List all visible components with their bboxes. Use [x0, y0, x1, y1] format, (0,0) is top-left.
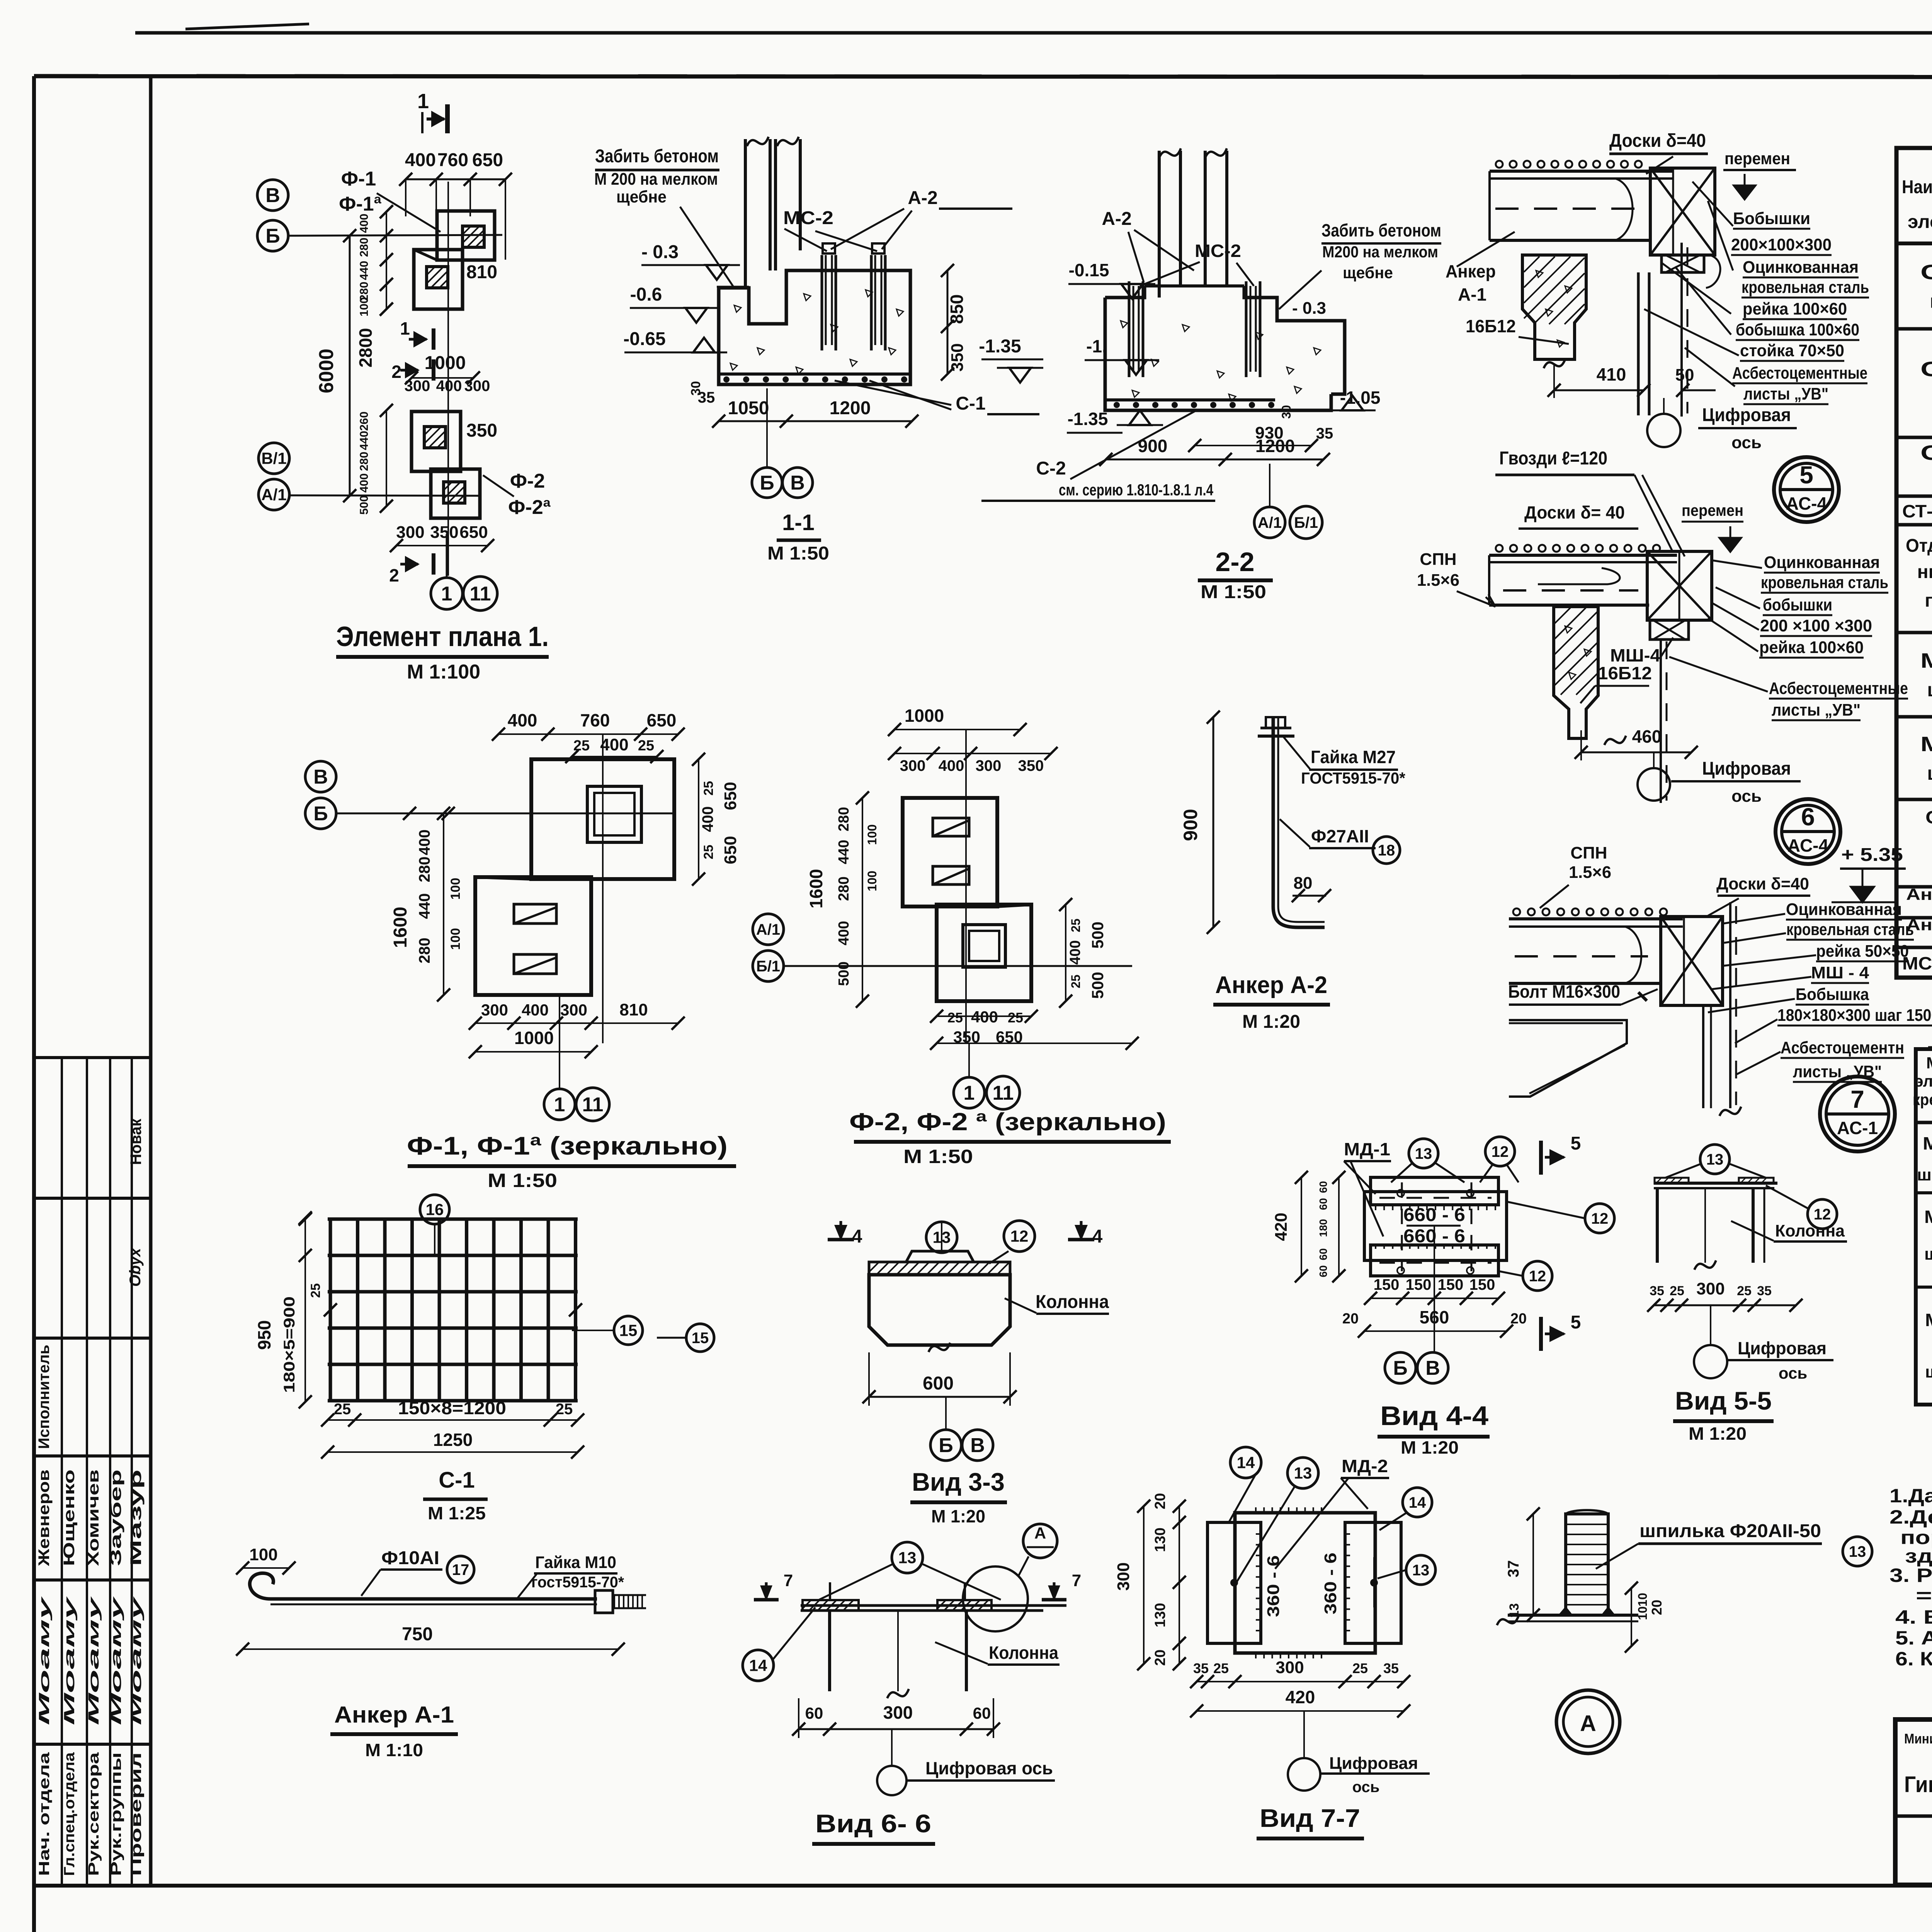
svg-text:Моаму: Моаму [108, 1596, 124, 1725]
sec2-2 axis circles [1254, 507, 1285, 538]
mesh left dims [304, 1218, 306, 1402]
ankerA2 dim 900 [1213, 717, 1214, 927]
vid66 bolts on plate [829, 1582, 831, 1600]
svg-text:6. Крепежные элементы изгота: 6. Крепежные элементы изготавливать изст… [1895, 1648, 1932, 1670]
svg-text:шт.24: шт.24 [1930, 291, 1932, 312]
svg-text:Асбестоцементные: Асбестоцементные [1732, 364, 1867, 383]
vid66 цифровая ось [877, 1766, 906, 1795]
svg-text:180×5=900: 180×5=900 [281, 1296, 298, 1393]
vid77 central rect [1235, 1513, 1375, 1653]
svg-text:щебне: щебне [616, 187, 667, 206]
svg-text:М 1:20: М 1:20 [1689, 1423, 1747, 1444]
svg-text:крепления: крепления [1913, 1090, 1932, 1109]
frame top border [34, 76, 1932, 77]
svg-text:рейка 100×60: рейка 100×60 [1759, 638, 1864, 657]
svg-text:5: 5 [1571, 1133, 1581, 1154]
f1 lower rect [475, 877, 591, 995]
svg-text:25: 25 [1352, 1660, 1368, 1676]
svg-text:25: 25 [701, 845, 716, 859]
svg-text:400: 400 [699, 806, 716, 832]
svg-text:ГОСТ5915-70*: ГОСТ5915-70* [1301, 769, 1406, 787]
stud thread cylinder [1566, 1514, 1608, 1615]
vid55 column [1656, 1188, 1659, 1263]
plan bottom section flag 2 [432, 553, 435, 575]
svg-text:МС-2: МС-2 [783, 208, 833, 228]
svg-text:20: 20 [1152, 1493, 1168, 1509]
svg-text:М 1:50: М 1:50 [1201, 582, 1266, 602]
svg-text:МД-1: МД-1 [1920, 649, 1932, 672]
vid66 circle A [1023, 1524, 1057, 1558]
node6 circle 6/AC-4 [1776, 799, 1840, 864]
sec1-1 foundation outline [719, 270, 910, 384]
sec2-2 speckles [1121, 321, 1128, 328]
svg-text:650: 650 [721, 836, 740, 864]
svg-text:35: 35 [698, 389, 715, 406]
svg-text:СТ-1: СТ-1 [1920, 261, 1932, 284]
plan lower rect [412, 412, 461, 471]
vid55 цифровая ось [1694, 1345, 1727, 1378]
svg-text:13: 13 [1849, 1543, 1866, 1560]
frame left border [32, 76, 36, 1932]
svg-text:150: 150 [1469, 1276, 1495, 1293]
svg-text:150: 150 [1406, 1276, 1432, 1293]
svg-text:Доски δ=40: Доски δ=40 [1716, 874, 1809, 893]
svg-text:кровельная сталь: кровельная сталь [1786, 920, 1914, 939]
svg-text:А/1: А/1 [261, 486, 286, 504]
svg-text:ось: ось [1352, 1779, 1380, 1796]
svg-text:4: 4 [1092, 1226, 1103, 1247]
svg-text:листы „УВ": листы „УВ" [1743, 384, 1828, 403]
svg-text:1: 1 [441, 583, 452, 605]
svg-text:-0.6: -0.6 [630, 284, 662, 305]
svg-text:35: 35 [1757, 1284, 1772, 1298]
svg-text:1: 1 [417, 90, 429, 113]
stud dims [1532, 1514, 1534, 1615]
svg-text:Моаму: Моаму [36, 1596, 53, 1725]
svg-text:15: 15 [692, 1330, 709, 1347]
plan 6000 dim [349, 236, 351, 496]
svg-text:перемен: перемен [1725, 149, 1790, 168]
svg-text:1600: 1600 [390, 907, 411, 948]
svg-text:Наименован.: Наименован. [1902, 177, 1932, 197]
bottom margin line full width [34, 1884, 1932, 1888]
sec2-2 top plate line [1145, 284, 1244, 287]
svg-text:400: 400 [416, 830, 433, 855]
f1 axis circles 1 11 [544, 1089, 575, 1120]
svg-text:МВ-5: МВ-5 [1925, 1310, 1932, 1330]
svg-text:Вид 7-7: Вид 7-7 [1260, 1804, 1360, 1832]
mid left table grid [1916, 1049, 1932, 1405]
svg-text:-1.35: -1.35 [979, 336, 1021, 357]
f1 right dims [698, 759, 699, 879]
svg-text:1: 1 [964, 1082, 975, 1104]
svg-text:СТ-2: СТ-2 [1920, 358, 1932, 381]
ankerA1 dim 100 [243, 1567, 289, 1569]
svg-text:шт. 44: шт. 44 [1927, 762, 1932, 784]
svg-text:20: 20 [1152, 1650, 1168, 1666]
node7 bracket [1661, 917, 1723, 1005]
svg-text:15: 15 [619, 1321, 638, 1340]
svg-text:СТ-4 шт.114: СТ-4 шт.114 [1902, 501, 1932, 521]
svg-text:300: 300 [560, 1001, 587, 1019]
svg-text:Б/1: Б/1 [1294, 514, 1318, 531]
svg-text:Цифровая: Цифровая [1738, 1338, 1827, 1358]
svg-text:А: А [1034, 1524, 1046, 1542]
svg-text:М 1:50: М 1:50 [767, 543, 829, 564]
svg-text:Ф10АI: Ф10АI [381, 1548, 439, 1568]
mesh dim ticks [324, 1303, 337, 1316]
node7 asbestos sheet [1729, 902, 1731, 1108]
ankerA1 dim 750 [243, 1648, 618, 1650]
svg-text:60: 60 [1317, 1181, 1329, 1193]
svg-text:1: 1 [554, 1094, 565, 1116]
svg-text:400: 400 [939, 757, 964, 774]
svg-text:13: 13 [1415, 1145, 1432, 1162]
svg-text:360 - 6: 360 - 6 [1264, 1555, 1283, 1617]
svg-text:25: 25 [1213, 1660, 1229, 1676]
plan element 1 : section flag 1 top [421, 112, 423, 133]
svg-text:ось: ось [1779, 1364, 1807, 1382]
vid55 top plate [1654, 1182, 1777, 1185]
svg-text:810: 810 [619, 1000, 648, 1019]
svg-text:7: 7 [1072, 1571, 1081, 1590]
svg-text:7: 7 [784, 1571, 793, 1590]
ankerA2 nut [1258, 735, 1294, 738]
svg-text:11: 11 [582, 1094, 604, 1116]
svg-text:650: 650 [647, 710, 677, 730]
svg-text:ось: ось [1731, 787, 1762, 806]
plan axis circles B/1 A/1 [259, 443, 289, 474]
svg-text:13: 13 [1412, 1562, 1430, 1579]
svg-text:25: 25 [556, 1401, 573, 1418]
svg-text:12: 12 [1010, 1227, 1029, 1245]
svg-text:Оцинкованная: Оцинкованная [1764, 553, 1880, 572]
vid44 outer rect [1364, 1192, 1507, 1260]
mesh circled 16 [420, 1195, 449, 1224]
svg-text:25: 25 [1737, 1284, 1752, 1298]
svg-text:150×8=1200: 150×8=1200 [398, 1398, 506, 1418]
svg-text:760: 760 [580, 710, 610, 730]
svg-text:25: 25 [947, 1010, 963, 1026]
svg-text:440: 440 [416, 893, 433, 919]
svg-text:35: 35 [1650, 1284, 1664, 1298]
svg-text:Б: Б [265, 225, 280, 247]
svg-text:20: 20 [1342, 1311, 1359, 1327]
svg-text:300: 300 [396, 523, 424, 542]
svg-text:щебне: щебне [1343, 264, 1393, 282]
svg-text:1.Данный лист рассматривать: 1.Данный лист рассматривать совместно с … [1889, 1485, 1932, 1507]
svg-text:400: 400 [971, 1008, 998, 1026]
node5 stojka vertical [1637, 272, 1640, 415]
svg-text:14: 14 [1237, 1454, 1255, 1472]
svg-text:300: 300 [405, 378, 430, 395]
svg-text:13: 13 [1706, 1151, 1724, 1168]
svg-text:Оцинкованная: Оцинкованная [1743, 258, 1859, 277]
svg-text:Забить бетоном: Забить бетоном [595, 146, 719, 167]
svg-text:20: 20 [1649, 1600, 1665, 1615]
svg-text:1200: 1200 [830, 398, 871, 418]
f2 axis verticals [965, 730, 967, 1043]
svg-text:Оцинкованная: Оцинкованная [1786, 900, 1902, 919]
plan axis circles B Б [257, 180, 288, 211]
svg-text:Асбестоцементн: Асбестоцементн [1781, 1038, 1904, 1057]
svg-text:400: 400 [358, 473, 371, 493]
svg-text:-0.15: -0.15 [1069, 260, 1109, 280]
plan upper-mid rect [414, 250, 463, 309]
svg-text:В/1: В/1 [261, 449, 286, 468]
svg-text:50: 50 [1675, 366, 1694, 384]
svg-text:Сетка: Сетка [1925, 807, 1932, 827]
svg-text:25: 25 [638, 738, 654, 754]
vid77 left plate [1207, 1522, 1261, 1643]
svg-text:Болт М16×300: Болт М16×300 [1508, 981, 1620, 1002]
sec1-1 speckles [734, 305, 741, 312]
svg-text:Моаму: Моаму [61, 1596, 78, 1725]
svg-text:650: 650 [472, 150, 503, 170]
svg-text:440: 440 [358, 261, 371, 280]
svg-text:Доски δ= 40: Доски δ= 40 [1524, 502, 1625, 522]
svg-text:Проверил: Проверил [128, 1752, 145, 1876]
f2 axis circles 1 11 [954, 1077, 985, 1108]
svg-text:5. Антикоррозийную защиту см: 5. Антикоррозийную защиту см. пояснитель… [1895, 1627, 1932, 1649]
svg-text:25: 25 [1670, 1284, 1684, 1298]
plan axis circles 1 11 [431, 578, 463, 609]
svg-text:260: 260 [358, 412, 371, 431]
svg-text:поз: поз [1925, 590, 1932, 611]
f2 lower rect [937, 905, 1031, 1001]
plan mid section flags [432, 328, 435, 350]
svg-text:Б: Б [760, 472, 774, 494]
svg-text:35: 35 [1193, 1660, 1209, 1676]
svg-text:В: В [790, 472, 805, 494]
svg-text:13: 13 [1294, 1464, 1312, 1482]
svg-text:М200 на мелком: М200 на мелком [1322, 243, 1438, 261]
svg-text:Цифровая: Цифровая [1702, 405, 1791, 425]
vid66 dims [799, 1728, 993, 1730]
svg-text:420: 420 [1286, 1687, 1315, 1707]
svg-text:850: 850 [947, 294, 967, 324]
vid66 plate [801, 1604, 1066, 1607]
svg-text:М 1:20: М 1:20 [1401, 1437, 1459, 1458]
svg-text:Б: Б [939, 1434, 953, 1457]
svg-text:ось: ось [1731, 433, 1762, 452]
node6 dim 460 [1581, 752, 1691, 753]
svg-text:Асбестоцементные: Асбестоцементные [1769, 679, 1908, 698]
svg-text:500: 500 [358, 495, 371, 515]
svg-text:400: 400 [358, 214, 371, 233]
svg-text:100: 100 [448, 878, 463, 900]
svg-text:Марка: Марка [1926, 1054, 1932, 1072]
f2 right dims [1065, 905, 1066, 1001]
svg-text:листы „УВ": листы „УВ" [1772, 701, 1861, 719]
sec2-2 anchor bolts [1128, 281, 1131, 377]
svg-text:900: 900 [1180, 809, 1201, 841]
svg-text:2800: 2800 [355, 328, 376, 367]
node7 wall slope [1509, 1020, 1627, 1097]
svg-text:60: 60 [1317, 1265, 1329, 1277]
svg-text:Моаму: Моаму [86, 1596, 102, 1725]
svg-text:Ф-1: Ф-1 [341, 168, 376, 190]
svg-text:350: 350 [953, 1028, 980, 1046]
plan axis vertical [447, 182, 449, 576]
plan bottom dims [396, 545, 488, 546]
svg-text:СПН: СПН [1420, 550, 1456, 569]
svg-text:ные: ные [1917, 562, 1932, 582]
svg-text:В: В [265, 184, 280, 207]
svg-text:3. Расход бетона на фундамен: 3. Расход бетона на фундаменты Ф-1 и Ф-2… [1889, 1565, 1932, 1586]
svg-text:950: 950 [254, 1320, 274, 1350]
svg-text:Цифровая: Цифровая [1702, 759, 1791, 779]
f2 upper rect [903, 798, 997, 906]
svg-text:М 1:10: М 1:10 [365, 1740, 423, 1760]
svg-text:400: 400 [405, 150, 436, 170]
vid44 circles 13 12 [1409, 1139, 1438, 1168]
svg-text:100: 100 [865, 871, 879, 891]
sec1-1 base dots [723, 376, 730, 383]
svg-text:Моаму: Моаму [128, 1596, 145, 1725]
node7 nail circles [1513, 908, 1520, 915]
svg-text:Ф-1, Ф-1ª (зеркально): Ф-1, Ф-1ª (зеркально) [407, 1131, 728, 1160]
svg-text:6000: 6000 [315, 349, 338, 393]
svg-text:12: 12 [1591, 1210, 1609, 1227]
title block outer [1895, 1719, 1932, 1885]
ankerA2 rod [1272, 717, 1275, 906]
svg-text:16: 16 [426, 1201, 444, 1219]
svg-text:360 - 6: 360 - 6 [1321, 1553, 1340, 1614]
svg-text:МВ-1: МВ-1 [1924, 1207, 1932, 1227]
svg-text:930: 930 [1255, 423, 1283, 442]
svg-text:300: 300 [1276, 1658, 1304, 1677]
sec1-1 column shafts [744, 139, 747, 289]
svg-text:+ 5.35: + 5.35 [1841, 845, 1903, 865]
ankerA1 nut + thread [595, 1590, 613, 1613]
svg-text:400: 400 [522, 1001, 549, 1019]
svg-text:- 0.3: - 0.3 [641, 242, 679, 262]
svg-text:650: 650 [996, 1028, 1023, 1046]
node5 roof beam [1490, 170, 1673, 173]
svg-text:350: 350 [430, 523, 458, 542]
vid77 bottom dims [1197, 1681, 1404, 1682]
vid66 circle 14 [743, 1650, 774, 1681]
left strip rows [34, 1056, 151, 1059]
svg-text:1600: 1600 [806, 869, 826, 908]
node7 roof beam [1509, 917, 1683, 920]
svg-text:760: 760 [437, 150, 468, 170]
svg-text:300: 300 [464, 378, 490, 395]
big table header bottom [1896, 241, 1932, 245]
svg-text:Б: Б [313, 803, 328, 825]
svg-text:А/1: А/1 [1258, 514, 1282, 531]
svg-text:12: 12 [1529, 1268, 1546, 1285]
svg-text:35: 35 [1383, 1660, 1399, 1676]
vid33 dim 600 [869, 1396, 1010, 1398]
svg-text:1-1: 1-1 [782, 510, 815, 535]
node5 bracket [1650, 168, 1715, 255]
f1 bottom dims [475, 1022, 678, 1024]
svg-text:14: 14 [1409, 1494, 1426, 1511]
svg-text:см. серию 1.810-1.8.1 л.4: см. серию 1.810-1.8.1 л.4 [1059, 481, 1214, 499]
svg-text:С-1: С-1 [956, 393, 985, 414]
svg-text:10: 10 [1636, 1593, 1650, 1607]
svg-text:2.Деревянные конструкции вып: 2.Деревянные конструкции выполняются из … [1889, 1506, 1932, 1528]
f1 top dims [498, 733, 678, 735]
node5 circle 5/AC-4 [1774, 457, 1839, 522]
mesh bottom dims [328, 1419, 578, 1421]
vid77 цифровая ось [1288, 1758, 1320, 1791]
svg-text:бобышки: бобышки [1763, 595, 1832, 614]
svg-text:14: 14 [749, 1656, 767, 1675]
svg-text:Ф27АII: Ф27АII [1311, 826, 1369, 846]
sec1-1 bottom dims [719, 420, 912, 422]
svg-text:МШ-4: МШ-4 [1610, 645, 1660, 665]
svg-text:А: А [1580, 1711, 1596, 1736]
svg-text:400: 400 [1067, 940, 1083, 964]
node6 bracket [1647, 551, 1712, 620]
svg-text:1250: 1250 [433, 1430, 473, 1450]
vid44 upper bar [1371, 1177, 1498, 1205]
svg-text:Анкер А-1: Анкер А-1 [334, 1702, 454, 1728]
svg-text:Рук.сектора: Рук.сектора [86, 1752, 102, 1876]
vid33 cap trapezoid [906, 1251, 974, 1262]
svg-text:30: 30 [1279, 405, 1293, 419]
svg-text:350: 350 [1018, 757, 1044, 774]
svg-text:Колонна: Колонна [1036, 1292, 1109, 1312]
svg-text:А-1: А-1 [1458, 284, 1486, 304]
svg-text:300: 300 [1114, 1562, 1133, 1590]
svg-text:150: 150 [1438, 1276, 1464, 1293]
svg-text:13: 13 [898, 1549, 917, 1567]
svg-text:Вид 4-4: Вид 4-4 [1380, 1401, 1488, 1431]
svg-text:280: 280 [836, 876, 852, 901]
svg-text:400: 400 [600, 735, 628, 754]
svg-text:МШ-4: МШ-4 [1923, 1133, 1932, 1153]
svg-text:660 - 6: 660 - 6 [1403, 1205, 1465, 1225]
f2 axis circles [753, 914, 784, 945]
svg-text:шт. 44: шт. 44 [1927, 679, 1932, 701]
svg-text:элемента: элемента [1908, 212, 1932, 232]
svg-text:280: 280 [416, 857, 433, 883]
node6 roof beam [1489, 554, 1677, 557]
svg-text:шт.24: шт.24 [1925, 1362, 1932, 1381]
svg-text:130: 130 [1152, 1603, 1168, 1627]
svg-text:- 0.3: - 0.3 [1292, 299, 1326, 318]
vid66 column below [828, 1611, 831, 1691]
vid77 left dims [1143, 1506, 1145, 1664]
svg-text:АС-4: АС-4 [1787, 835, 1829, 855]
svg-text:= 23.2 м³: = 23.2 м³ [1916, 1585, 1932, 1606]
svg-text:1.5×6: 1.5×6 [1417, 571, 1459, 590]
svg-text:600: 600 [923, 1373, 954, 1394]
svg-text:Ф-2ª: Ф-2ª [508, 496, 551, 519]
svg-text:460: 460 [1632, 726, 1662, 747]
vid44 flag 5 top [1539, 1141, 1543, 1175]
svg-text:1000: 1000 [514, 1028, 554, 1048]
plan upper square [437, 211, 495, 260]
svg-text:М 1:25: М 1:25 [428, 1503, 486, 1523]
f2 top dims [895, 729, 1020, 730]
ankerA1 rod [270, 1597, 597, 1601]
svg-text:16Б12: 16Б12 [1598, 663, 1652, 683]
vid44 bottom dims [1371, 1298, 1498, 1299]
svg-text:280: 280 [836, 807, 852, 831]
svg-text:650: 650 [721, 782, 740, 810]
vid55 circle 12 [1808, 1199, 1837, 1229]
svg-text:17: 17 [452, 1561, 469, 1578]
svg-text:Вид 5-5: Вид 5-5 [1675, 1386, 1772, 1415]
svg-text:130: 130 [1152, 1527, 1168, 1552]
svg-text:Колонна: Колонна [1775, 1221, 1845, 1240]
svg-text:Анкер: Анкер [1446, 261, 1496, 281]
